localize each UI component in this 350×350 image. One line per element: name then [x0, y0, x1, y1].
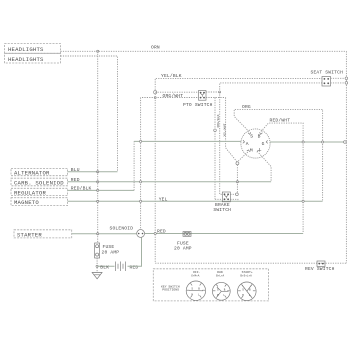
svg-text:ORN: ORN [151, 44, 160, 50]
node seat terminals on vertical [345, 77, 348, 80]
connector seat switch [322, 77, 331, 87]
svg-text:REGULATOR: REGULATOR [14, 189, 46, 196]
svg-text:B+S+L+A: B+S+L+A [240, 274, 252, 277]
headlight H1 box [5, 44, 61, 54]
svg-text:MAGNETO: MAGNETO [14, 199, 39, 206]
svg-text:CARB. SOLENIOD: CARB. SOLENIOD [14, 179, 64, 186]
wire headlight2 to corner [61, 56, 118, 172]
svg-text:20 AMP: 20 AMP [102, 249, 120, 255]
wire solenoid to fuse2 to corner [145, 233, 304, 235]
wire RED/BLK regulator to A [68, 189, 135, 191]
wire vertical 155 down [154, 98, 156, 264]
key switch pins [243, 132, 268, 152]
svg-text:RED: RED [130, 264, 139, 270]
regulator box [11, 188, 68, 196]
wire vertical 97 lower + fuse F1 [97, 51, 99, 243]
fuse F1 [95, 243, 100, 258]
wire PTO right bottom to corner [206, 97, 226, 99]
key switch circle [241, 129, 270, 158]
carb solenoid box [11, 178, 68, 186]
legend OFF circle [186, 270, 205, 300]
brake switch connector [222, 192, 230, 202]
svg-text:ALTERNATOR: ALTERNATOR [14, 170, 50, 177]
svg-text:L: L [259, 147, 262, 153]
wire seat switch lower [220, 83, 322, 92]
wire ORG/WHT circle to PTO [154, 94, 156, 98]
svg-text:G+M+A: G+M+A [191, 274, 199, 277]
svg-text:RED/BLK: RED/BLK [71, 186, 92, 192]
svg-text:A: A [246, 141, 249, 147]
svg-text:ORG/BLK: ORG/BLK [216, 114, 220, 127]
svg-text:POSITIONS: POSITIONS [162, 288, 179, 292]
wire YEL/BLK to seat switch [155, 78, 322, 92]
wire battery to solenoid [128, 237, 142, 266]
wire lower pin to PTO [155, 97, 198, 99]
svg-text:HEADLIGHTS: HEADLIGHTS [8, 56, 44, 63]
svg-text:SEAT SWITCH: SEAT SWITCH [311, 70, 344, 76]
node junction at 155,97.5 [154, 97, 156, 99]
PTO switch connector [199, 91, 207, 101]
svg-text:SOLENOID: SOLENOID [110, 225, 134, 231]
svg-text:YEL/WHT: YEL/WHT [222, 123, 226, 136]
svg-text:YEL: YEL [159, 196, 168, 202]
wire RED/WHT from B pin [261, 123, 303, 233]
node junction BLK [96, 265, 98, 267]
wire BLU [68, 171, 118, 173]
alternator box [11, 169, 68, 177]
wire seat to right vertical [331, 77, 347, 79]
solenoid [137, 230, 145, 238]
svg-text:G: G [262, 141, 265, 147]
svg-text:M: M [250, 147, 253, 153]
starter box [14, 230, 72, 239]
wire PTO right top to junction [206, 91, 220, 93]
node inline circle col a [214, 129, 217, 132]
wire ORN headlight1 to right vertical [61, 50, 347, 52]
wire vertical col a to brake [214, 98, 216, 200]
svg-text:SWITCH: SWITCH [213, 207, 231, 213]
wire RED long [68, 181, 272, 183]
wire down from junction to solenoid [141, 97, 156, 99]
svg-text:20 AMP: 20 AMP [174, 246, 192, 252]
svg-text:S: S [250, 134, 253, 140]
wire L pin chain [259, 153, 271, 182]
wire vertical ORG/BLK col b [220, 92, 223, 194]
svg-text:ORG: ORG [242, 104, 251, 110]
connector REV switch [317, 261, 325, 267]
wire BLK battery [97, 265, 114, 267]
svg-text:REV SWITCH: REV SWITCH [305, 266, 335, 272]
wire ORG from S pin [234, 109, 322, 201]
svg-text:STARTER: STARTER [17, 232, 42, 239]
wire M pin chain [237, 152, 247, 162]
wire vertical YEL/WHT [226, 98, 238, 163]
battery [116, 262, 126, 272]
wire fuse to ground [96, 258, 98, 273]
wire A pin horizontal [134, 140, 241, 142]
svg-text:RED: RED [71, 177, 80, 183]
node junction headlights/ORN [97, 50, 99, 52]
wire REV bottom [155, 262, 346, 264]
wire right vertical main [345, 51, 347, 263]
wire starter to solenoid [72, 233, 137, 235]
legend box [153, 269, 268, 301]
node connector circle left chain [154, 91, 157, 94]
fuse F2 [183, 232, 191, 237]
wire G pin to right [270, 141, 345, 143]
svg-text:HEADLIGHTS: HEADLIGHTS [8, 46, 44, 53]
legend RUN circle [212, 270, 230, 300]
wire brake right top to circle [230, 193, 235, 195]
magneto box [11, 198, 68, 206]
svg-text:RED: RED [157, 228, 166, 234]
svg-text:B+L+A: B+L+A [216, 274, 224, 277]
svg-text:RED/WHT: RED/WHT [270, 118, 291, 124]
svg-text:BLU: BLU [71, 167, 80, 173]
node junction pto/seat vertical [219, 91, 221, 93]
svg-text:BLK: BLK [100, 264, 109, 270]
svg-text:PTO SWITCH: PTO SWITCH [183, 102, 213, 108]
legend START circle [238, 270, 257, 300]
headlight H2 box [5, 53, 61, 63]
svg-text:ORG/WHT: ORG/WHT [163, 93, 184, 99]
svg-text:B: B [258, 134, 261, 140]
ground [92, 273, 102, 279]
wire brake right bottom stub [230, 199, 238, 201]
svg-text:FUSE: FUSE [103, 244, 115, 250]
wire YEL magneto [68, 200, 323, 202]
svg-text:YEL/BLK: YEL/BLK [161, 73, 182, 79]
